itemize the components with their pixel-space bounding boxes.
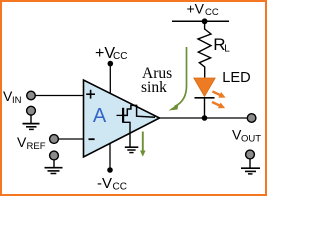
svg-text:IN: IN [12,95,22,106]
svg-text:+V: +V [187,0,205,16]
svg-text:CC: CC [113,181,127,192]
svg-text:A: A [93,105,107,127]
svg-text:LED: LED [222,70,250,86]
svg-text:V: V [17,134,27,150]
svg-text:-V: -V [97,175,112,192]
svg-text:REF: REF [27,141,46,152]
svg-text:sink: sink [141,79,167,96]
svg-text:CC: CC [113,51,127,62]
svg-text:CC: CC [205,7,219,18]
svg-text:OUT: OUT [241,134,261,145]
svg-text:L: L [224,44,230,55]
